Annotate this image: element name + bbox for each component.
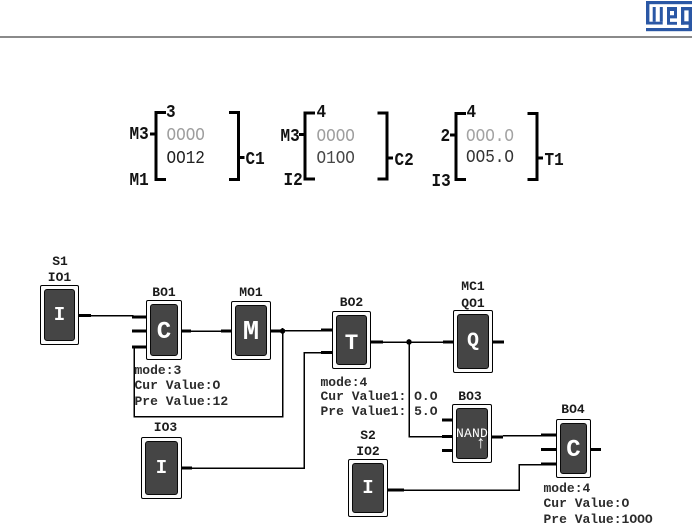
display T1 value row 005.0 — [466, 148, 514, 166]
wire B04 input2 stub — [541, 448, 556, 451]
header rule — [0, 36, 692, 38]
display C2 value row 0100 — [317, 149, 355, 167]
wire B01 output stub — [182, 330, 191, 333]
display T1 node label 2 — [441, 127, 451, 145]
wire Q01 output stub — [493, 341, 504, 344]
B02 value label Pre Value1: 5.0 — [321, 405, 438, 418]
B04 value label Pre Value:1000 — [544, 513, 653, 525]
wire I01 to B01 — [91, 316, 133, 318]
label I01 — [48, 271, 71, 284]
display C1 preset digit 3 — [166, 103, 176, 121]
output block Q01 (MC1) — [453, 310, 493, 373]
wire B03 to B04 — [503, 435, 541, 437]
counter block B04 — [556, 419, 591, 478]
wire I02 output stub — [388, 489, 404, 492]
label B01 — [152, 286, 175, 299]
wire Q01 input stub — [443, 341, 453, 344]
display T1 value row 000.0 — [466, 127, 514, 145]
wire B02 to Q01 — [383, 341, 443, 343]
timer block B02 — [332, 311, 371, 369]
display C1 bracket right — [229, 111, 245, 181]
wire B03 input1 stub — [442, 419, 452, 422]
display C2 bracket right — [378, 112, 394, 181]
wire B02 input2 stub — [321, 351, 332, 354]
input block I02 (S2) — [348, 459, 388, 517]
wire B01 input2 stub — [132, 330, 146, 333]
display C2 preset digit 4 — [317, 103, 327, 121]
label B02 — [340, 296, 363, 309]
wire I03 to B02 input2 — [192, 353, 321, 469]
wire B03 output stub — [492, 436, 503, 439]
wire B02 output stub — [371, 341, 383, 344]
wire M01 input stub — [221, 330, 231, 333]
display C1 name label C1 — [246, 150, 265, 168]
label S1 — [52, 255, 68, 268]
wire B01 to M01 — [191, 330, 221, 332]
input block I03 — [141, 437, 182, 499]
label B04 — [561, 403, 584, 416]
wire B03 input3 stub — [442, 449, 452, 452]
display T1 bracket left — [450, 112, 466, 181]
wire B02 input1 stub — [321, 329, 332, 332]
WEG logo — [0, 0, 692, 40]
displays layer — [0, 0, 692, 220]
marker block M01 — [231, 301, 271, 360]
B01 value label mode:3 — [135, 364, 182, 377]
B01 value label Cur Value:0 — [135, 379, 221, 392]
label B03 — [458, 390, 481, 403]
wire B03 input2 stub — [442, 435, 452, 438]
display C2 node label M3 — [281, 127, 300, 145]
B02 value label Cur Value1: 0.0 — [321, 390, 438, 403]
display T1 preset digit 4 — [467, 103, 477, 121]
wire I01 output stub — [79, 314, 91, 317]
wire M01 output stub — [271, 330, 280, 333]
B02 value label mode:4 — [321, 376, 368, 389]
label MC1 — [461, 280, 484, 293]
display T1 name label T1 — [545, 151, 564, 169]
wire feedback junction to B01 input3 — [134, 331, 283, 417]
NAND block B03 — [452, 404, 492, 463]
wire B01 input3 stub — [132, 346, 146, 349]
wire B04 input1 stub — [541, 434, 556, 437]
display C1 bracket left — [150, 111, 166, 181]
wire junction to B03 input2 — [409, 342, 442, 437]
label I03 — [154, 421, 177, 434]
display T1 bracket right — [528, 112, 544, 181]
display C1 value row 0000 — [167, 126, 205, 144]
counter block B01 — [146, 300, 182, 360]
label M01 — [239, 286, 262, 299]
B04 value label mode:4 — [544, 482, 591, 495]
B04 value label Cur Value:0 — [544, 497, 630, 510]
wire B04 input3 stub — [541, 463, 556, 466]
label S2 — [360, 429, 376, 442]
wire M01 to B02 — [280, 330, 321, 332]
display C1 value row 0012 — [167, 149, 205, 167]
wire I03 output stub — [182, 467, 192, 470]
display C1 node label M3 — [130, 125, 149, 143]
junction after B02 — [406, 339, 412, 345]
display C1 node label M1 — [130, 171, 149, 189]
junction after M01 — [280, 328, 286, 334]
input block I01 (S1) — [40, 285, 79, 345]
label I02 — [356, 445, 379, 458]
display C2 node label I2 — [284, 171, 303, 189]
wire B04 output stub — [591, 448, 601, 451]
display T1 node label I3 — [432, 172, 451, 190]
B01 value label Pre Value:12 — [135, 395, 229, 408]
display C2 value row 0000 — [317, 127, 355, 145]
label Q01 — [461, 297, 484, 310]
display C2 bracket left — [299, 112, 315, 181]
display C2 name label C2 — [395, 151, 414, 169]
wire I02 to B04 input3 — [404, 465, 541, 491]
wire B01 input1 stub — [132, 316, 146, 319]
